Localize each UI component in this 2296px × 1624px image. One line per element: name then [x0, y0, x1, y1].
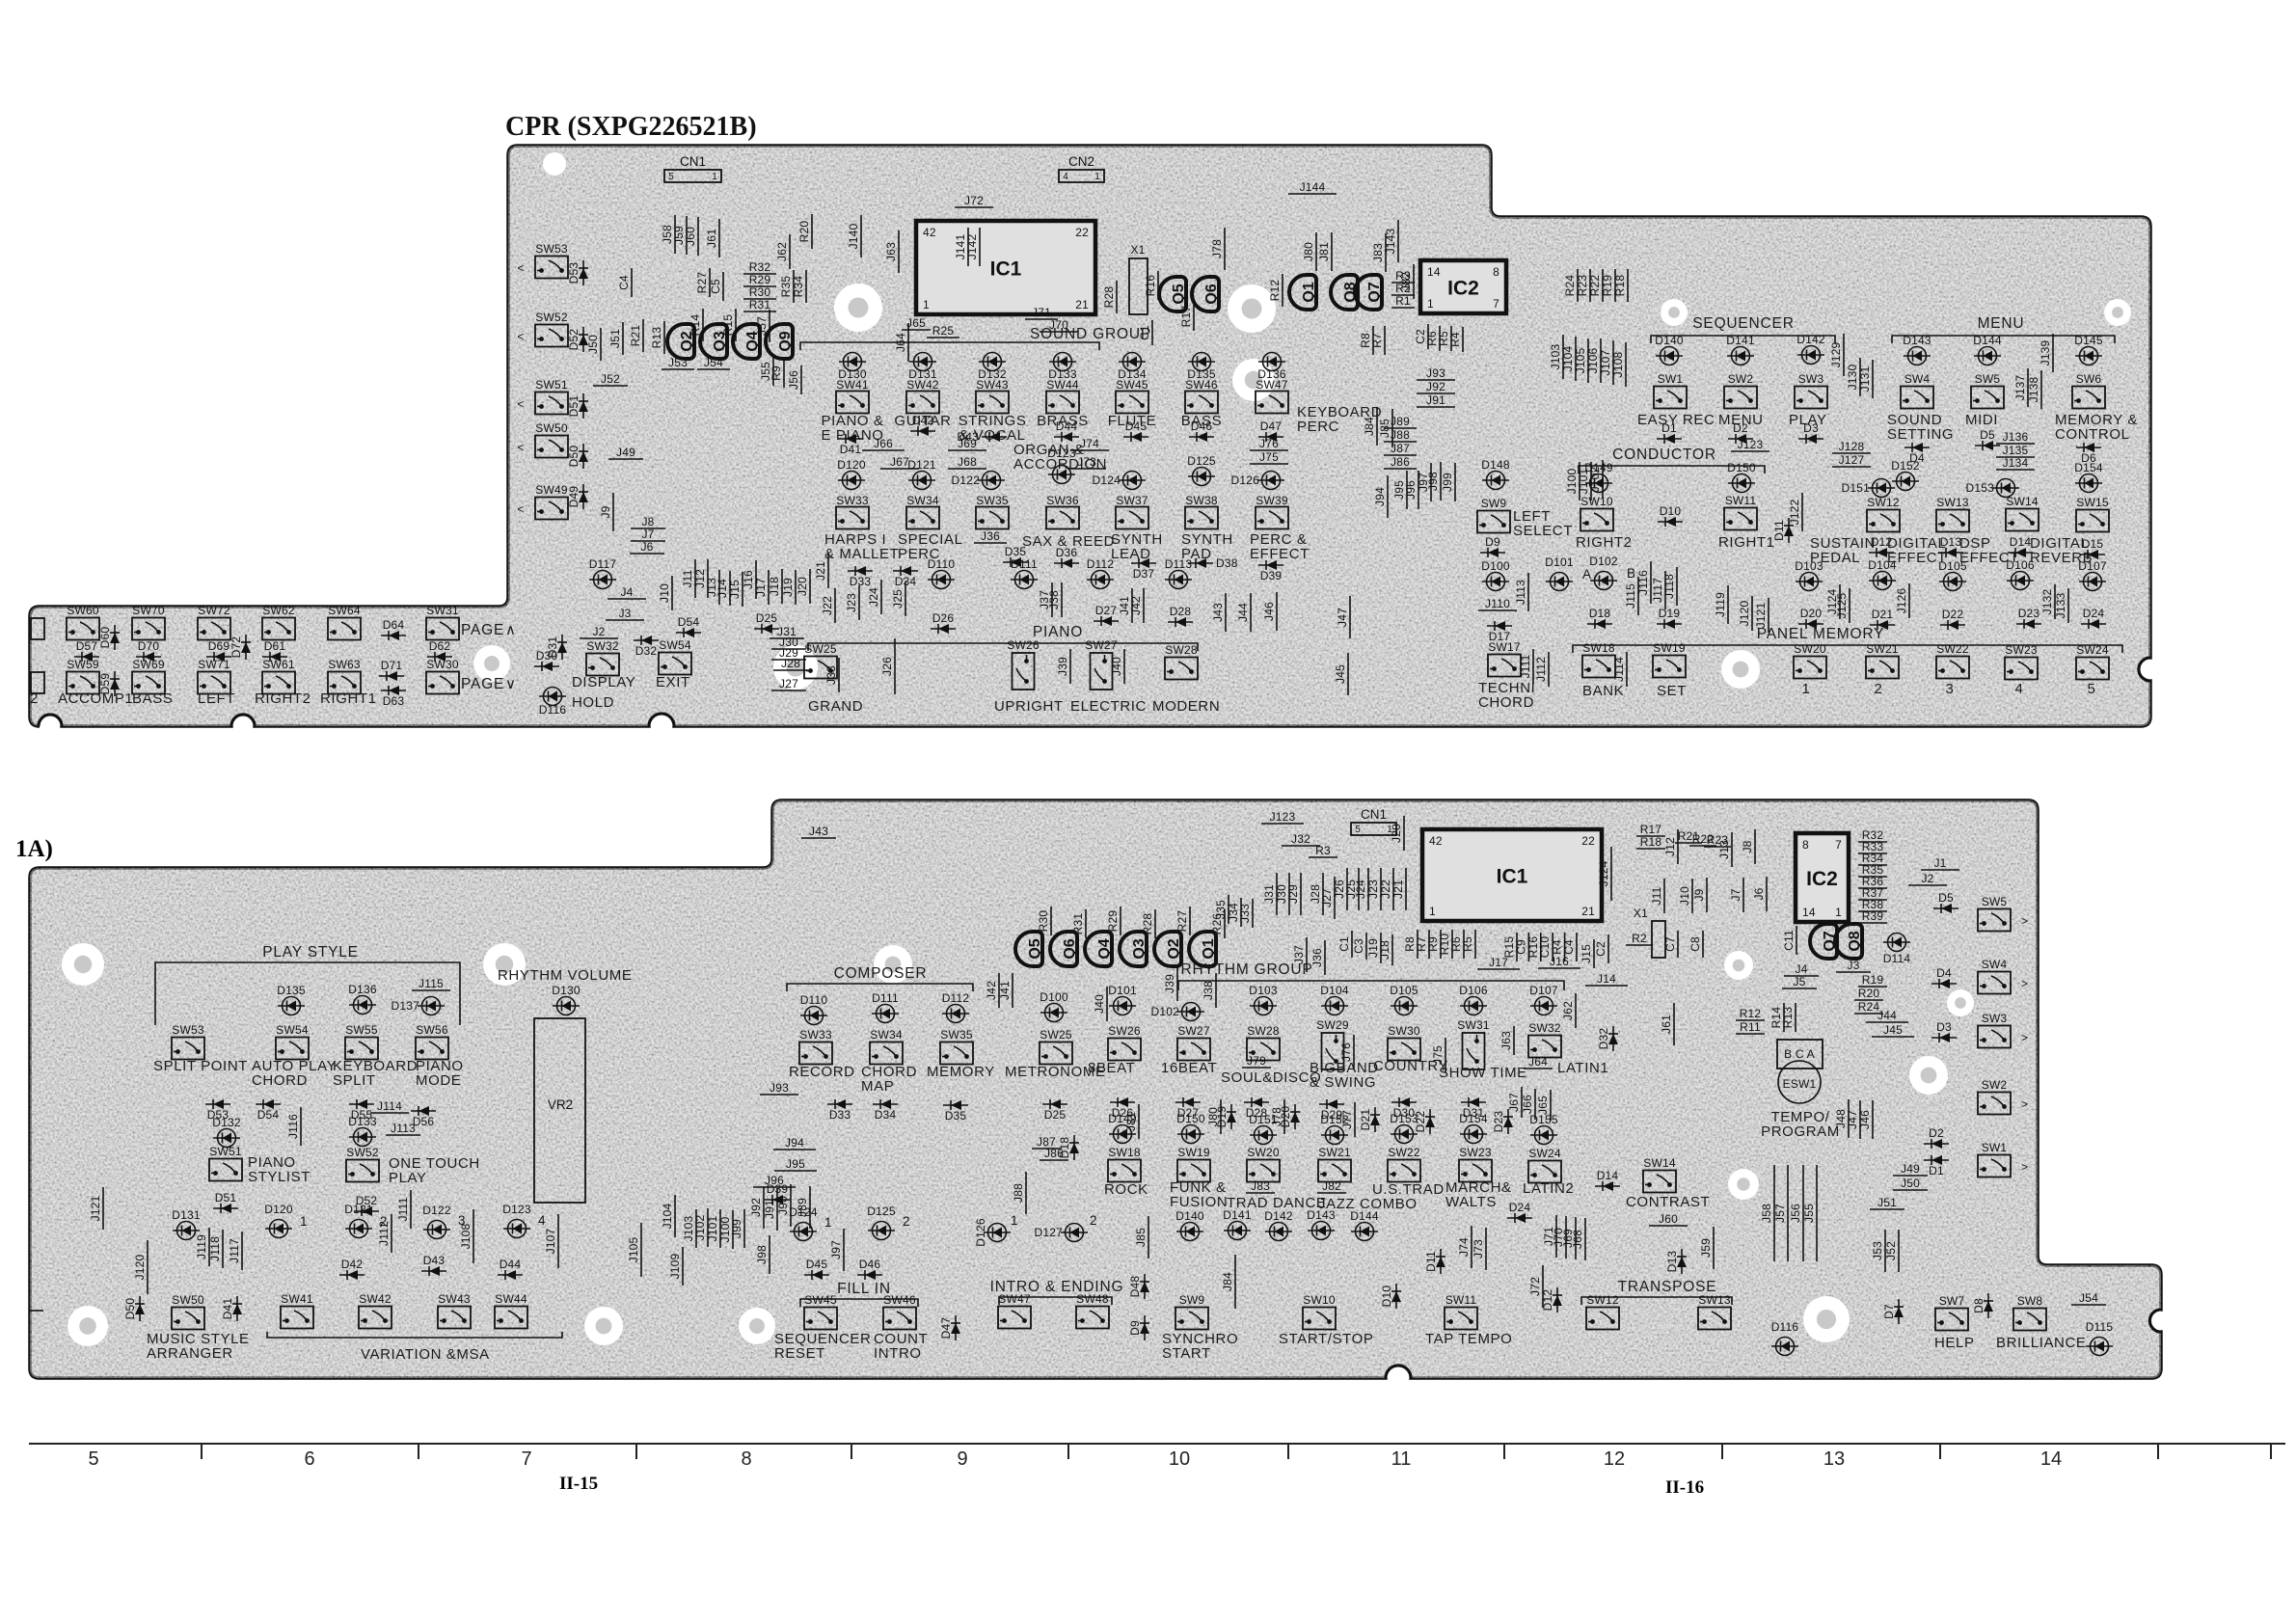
svg-text:J4: J4: [1795, 962, 1807, 976]
jumper J12: [707, 559, 709, 598]
jumper J26: [1346, 868, 1348, 910]
jumper J85: [1148, 1216, 1149, 1259]
svg-text:LEFT: LEFT: [198, 690, 235, 707]
jumper R21: [642, 319, 644, 352]
jumper C11: [1796, 926, 1797, 955]
diode D9: [1140, 1315, 1149, 1340]
svg-text:J68: J68: [1571, 1230, 1584, 1249]
jumper J38: [1215, 973, 1217, 1008]
svg-text:∨: ∨: [505, 676, 517, 692]
svg-text:J139: J139: [2039, 339, 2052, 365]
jumper J23: [1380, 868, 1382, 910]
switch SW5: [1978, 895, 2011, 932]
svg-text:SW39: SW39: [1256, 494, 1288, 507]
transistor Q9: [766, 324, 794, 359]
svg-text:CN2: CN2: [1068, 154, 1094, 169]
svg-text:SW9: SW9: [1481, 497, 1507, 510]
svg-text:SW50: SW50: [172, 1293, 204, 1307]
svg-text:D143: D143: [1307, 1208, 1336, 1222]
switch SW35: [976, 507, 1009, 529]
svg-text:J17: J17: [754, 578, 768, 597]
jumper R28: [1154, 909, 1156, 938]
switch SW45: [1116, 392, 1148, 414]
jumper J121: [102, 1187, 104, 1230]
svg-text:J45: J45: [1883, 1023, 1903, 1037]
group bracket TRANSPOSE: [1581, 1297, 1732, 1305]
jumper J132: [2054, 584, 2056, 619]
jumper J12: [1677, 829, 1679, 864]
transistor Q3: [1120, 932, 1148, 966]
jumper R4: [1564, 933, 1566, 961]
svg-text:D121: D121: [907, 458, 936, 472]
mounting hole: [739, 1308, 775, 1344]
diode D143: [1904, 347, 1931, 365]
diode D24: [1507, 1213, 1532, 1223]
svg-text:J83: J83: [1371, 243, 1385, 262]
svg-text:D101: D101: [1545, 555, 1574, 569]
svg-text:D33: D33: [829, 1108, 851, 1122]
svg-text:SW34: SW34: [906, 494, 939, 507]
jumper J70: [1565, 1216, 1567, 1259]
svg-text:SW12: SW12: [1586, 1293, 1619, 1307]
svg-text:Q2: Q2: [1166, 938, 1182, 959]
switch SW53: [172, 1023, 204, 1060]
svg-text:SW11: SW11: [1445, 1293, 1477, 1307]
jumper J99: [743, 1209, 745, 1248]
jumper J75: [1445, 1038, 1446, 1072]
diode D70: [136, 652, 161, 662]
transistor Q8: [1835, 924, 1863, 959]
svg-text:J106: J106: [1586, 347, 1600, 373]
svg-text:D103: D103: [1795, 559, 1823, 573]
svg-text:D71: D71: [381, 659, 403, 672]
svg-text:1: 1: [923, 298, 930, 311]
svg-text:D11: D11: [1424, 1251, 1438, 1272]
group bracket RHYTHM GROUP: [1178, 981, 1564, 990]
svg-text:SHOW TIME: SHOW TIME: [1439, 1065, 1527, 1081]
svg-text:R24: R24: [1563, 275, 1577, 297]
svg-text:D140: D140: [1655, 334, 1684, 347]
svg-text:INTRO: INTRO: [874, 1345, 922, 1362]
diode D2: [1728, 434, 1753, 444]
diode D154: [2075, 474, 2102, 493]
switch SW10: [1580, 495, 1613, 531]
svg-text:D41: D41: [221, 1298, 234, 1320]
jumper J100: [1579, 462, 1580, 501]
svg-text:J24: J24: [867, 587, 880, 607]
jumper R5: [1474, 930, 1476, 959]
diode D34: [893, 566, 918, 576]
svg-text:R18: R18: [1613, 275, 1627, 297]
svg-text:J81: J81: [1124, 1112, 1138, 1131]
svg-text:J53: J53: [1871, 1241, 1884, 1260]
jumper J138: [2040, 370, 2042, 409]
jumper R5: [1450, 326, 1452, 351]
svg-text:J107: J107: [1599, 349, 1612, 375]
svg-text:D150: D150: [1176, 1112, 1205, 1125]
svg-text:D48: D48: [1128, 1276, 1142, 1298]
diode D100: [1482, 573, 1509, 591]
diode D1: [1657, 434, 1682, 444]
svg-text:J144: J144: [1300, 180, 1326, 194]
svg-text:D125: D125: [1187, 454, 1216, 468]
svg-text:J19: J19: [781, 578, 795, 597]
svg-text:J21: J21: [1391, 880, 1405, 899]
diode D47: [1258, 432, 1283, 442]
svg-text:GRAND: GRAND: [808, 698, 863, 715]
jumper J13: [718, 570, 720, 605]
transistor Q4: [733, 324, 761, 359]
svg-text:J116: J116: [1636, 570, 1650, 595]
transistor Q1: [1289, 275, 1317, 310]
diode D143: [1308, 1222, 1335, 1240]
svg-text:PROGRAM: PROGRAM: [1761, 1123, 1840, 1140]
svg-text:R29: R29: [1106, 910, 1120, 933]
svg-text:D126: D126: [974, 1218, 987, 1247]
svg-text:J132: J132: [2040, 588, 2054, 614]
svg-text:D33: D33: [850, 575, 872, 588]
jumper J90: [790, 1184, 792, 1227]
svg-text:C4: C4: [1562, 939, 1576, 955]
jumper J33: [838, 658, 840, 692]
svg-text:D124: D124: [789, 1205, 818, 1219]
svg-text:R3: R3: [1315, 844, 1331, 857]
svg-text:MIDI: MIDI: [1965, 412, 1998, 428]
svg-text:J59: J59: [1699, 1238, 1713, 1258]
svg-text:R28: R28: [1102, 286, 1116, 309]
svg-text:2: 2: [903, 1214, 910, 1229]
svg-text:J61: J61: [705, 229, 718, 248]
jumper J37: [1051, 582, 1053, 617]
svg-text:C7: C7: [1663, 936, 1677, 952]
svg-text:J27: J27: [1320, 888, 1334, 907]
svg-text:J33: J33: [824, 665, 838, 685]
svg-text:RIGHT1: RIGHT1: [320, 690, 377, 707]
jumper J59: [1713, 1227, 1715, 1269]
svg-text:J21: J21: [814, 561, 827, 581]
svg-text:D18: D18: [1058, 1137, 1071, 1159]
svg-text:SW33: SW33: [799, 1028, 832, 1042]
svg-text:R16: R16: [1144, 275, 1157, 297]
diode D12: [1869, 548, 1894, 557]
svg-text:SW72: SW72: [198, 604, 230, 617]
jumper R35: [793, 270, 795, 303]
diode D41: [232, 1296, 242, 1321]
svg-text:J66: J66: [874, 437, 893, 450]
svg-text:J66: J66: [1521, 1095, 1534, 1114]
svg-text:J115: J115: [1624, 583, 1637, 609]
svg-text:J61: J61: [1660, 1015, 1673, 1034]
svg-text:21: 21: [1075, 298, 1089, 311]
svg-text:SOUL&DISCO: SOUL&DISCO: [1221, 1069, 1321, 1086]
svg-text:Q1: Q1: [1301, 282, 1317, 302]
svg-text:D140: D140: [1175, 1209, 1204, 1223]
svg-text:J32: J32: [1291, 832, 1310, 846]
switch SW9: [1175, 1293, 1208, 1330]
svg-text:J73: J73: [1077, 455, 1096, 469]
jumper J64: [907, 323, 909, 362]
svg-text:J88: J88: [1012, 1183, 1025, 1203]
svg-text:D113: D113: [1165, 557, 1193, 571]
jumper J42: [998, 973, 1000, 1008]
diode D50: [579, 444, 588, 469]
jumper J95: [1406, 471, 1408, 509]
switch SW44: [495, 1292, 527, 1329]
svg-text:J22: J22: [1379, 880, 1392, 899]
svg-text:<: <: [517, 441, 524, 454]
group bracket FILL IN: [800, 1299, 918, 1307]
svg-text:II-16: II-16: [1665, 1477, 1704, 1498]
switch SW34: [870, 1028, 903, 1065]
svg-text:SW48: SW48: [1076, 1292, 1109, 1306]
svg-text:START/STOP: START/STOP: [1279, 1331, 1374, 1347]
ruler: [29, 1443, 2285, 1445]
svg-text:D35: D35: [945, 1109, 967, 1123]
svg-text:R1: R1: [1395, 294, 1411, 308]
svg-text:J23: J23: [845, 593, 858, 612]
svg-text:J118: J118: [208, 1236, 222, 1261]
jumper J71: [1555, 1215, 1557, 1258]
svg-text:MAP: MAP: [861, 1078, 894, 1095]
svg-text:J94: J94: [1373, 487, 1387, 506]
jumper R10: [1451, 930, 1453, 959]
diode D154: [1460, 1125, 1487, 1144]
jumper J103: [695, 1209, 697, 1248]
svg-text:8: 8: [1493, 265, 1499, 279]
svg-text:D155: D155: [1529, 1113, 1558, 1126]
svg-text:D36: D36: [1056, 546, 1078, 559]
svg-text:J113: J113: [1514, 580, 1527, 605]
jumper J62: [789, 234, 791, 269]
svg-text:D50: D50: [567, 446, 581, 468]
jumper R12: [1282, 274, 1283, 307]
svg-text:D32: D32: [635, 644, 658, 658]
group bracket SEQUENCER: [1651, 336, 1835, 343]
svg-text:D42: D42: [341, 1258, 364, 1271]
svg-text:SW43: SW43: [976, 378, 1009, 392]
svg-text:SW11: SW11: [1725, 494, 1757, 507]
diode D4: [1904, 443, 1930, 452]
svg-text:D145: D145: [2074, 334, 2103, 347]
svg-text:J16: J16: [742, 570, 755, 589]
svg-text:C5: C5: [709, 279, 722, 294]
diode D106: [1460, 997, 1487, 1015]
jumper J25: [905, 582, 906, 616]
svg-text:SPLIT: SPLIT: [333, 1072, 376, 1089]
svg-text:MEMORY: MEMORY: [927, 1064, 995, 1080]
svg-text:R30: R30: [749, 285, 771, 299]
svg-text:Q8: Q8: [1847, 931, 1863, 951]
svg-text:SW1: SW1: [1658, 372, 1684, 386]
svg-text:VR2: VR2: [548, 1097, 573, 1112]
svg-text:R29: R29: [749, 273, 771, 286]
svg-text:J64: J64: [1528, 1055, 1548, 1069]
svg-text:SW31: SW31: [1457, 1018, 1490, 1032]
svg-text:D34: D34: [875, 1108, 897, 1122]
svg-text:SOUND GROUP: SOUND GROUP: [1030, 326, 1151, 342]
diode D56: [411, 1106, 436, 1116]
svg-text:SW38: SW38: [1185, 494, 1218, 507]
diode D13: [1938, 548, 1963, 557]
jumper R34: [805, 270, 807, 303]
svg-text:D54: D54: [257, 1108, 280, 1122]
diode D7: [1894, 1299, 1904, 1324]
switch SW39: [1256, 507, 1288, 529]
diode D106: [2007, 572, 2034, 590]
svg-text:J104: J104: [661, 1203, 674, 1229]
svg-text:J11: J11: [681, 569, 694, 587]
svg-text:22: 22: [1075, 226, 1089, 239]
svg-text:>: >: [2021, 1031, 2028, 1044]
svg-text:D111: D111: [872, 991, 899, 1005]
switch SW51: [535, 378, 568, 415]
svg-text:B C A: B C A: [1784, 1047, 1815, 1061]
switch SW7: [1935, 1294, 1968, 1331]
svg-text:SW20: SW20: [1247, 1146, 1280, 1159]
diode D149: [1585, 474, 1612, 493]
diode D102: [1177, 1003, 1204, 1021]
svg-text:J80: J80: [1302, 242, 1315, 261]
jumper J97: [843, 1229, 845, 1271]
svg-text:D62: D62: [429, 639, 451, 653]
svg-text:10: 10: [1169, 1448, 1190, 1470]
svg-text:SW63: SW63: [328, 658, 361, 671]
svg-text:D51: D51: [567, 395, 581, 418]
diode D105: [1391, 997, 1418, 1015]
svg-text:D56: D56: [413, 1115, 435, 1128]
svg-text:J124: J124: [1597, 860, 1610, 886]
switch SW25: [804, 642, 837, 679]
bottom PCB board (1A) outline: [30, 800, 2161, 1378]
svg-text:3: 3: [1946, 681, 1955, 697]
switch SW13: [1936, 496, 1969, 532]
svg-text:D39: D39: [1260, 569, 1283, 582]
jumper R14: [1783, 1003, 1785, 1032]
switch SW28: [1247, 1024, 1280, 1061]
jumper J124: [1839, 584, 1841, 619]
jumper J11: [694, 559, 696, 598]
mounting hole: [68, 1306, 108, 1346]
svg-text:J29: J29: [1286, 884, 1300, 904]
mounting hole: [834, 284, 882, 332]
svg-text:D23: D23: [1492, 1111, 1505, 1133]
svg-text:J18: J18: [1378, 940, 1391, 960]
svg-text:J47: J47: [1846, 1110, 1859, 1129]
svg-text:D11: D11: [1772, 520, 1786, 541]
svg-text:J22: J22: [821, 596, 834, 615]
diode D49: [579, 484, 588, 509]
diode D51: [579, 393, 588, 419]
diode D25: [1042, 1099, 1067, 1109]
switch SW25: [1040, 1028, 1072, 1065]
transistor Q7: [1355, 275, 1383, 310]
diode D104: [1869, 572, 1896, 590]
svg-text:SW27: SW27: [1177, 1024, 1210, 1038]
jumper J62: [1575, 993, 1577, 1028]
switch SW8: [2013, 1294, 2046, 1331]
jumper J116: [1650, 561, 1652, 604]
svg-text:WALTS: WALTS: [1445, 1194, 1497, 1210]
svg-text:J81: J81: [1317, 242, 1331, 261]
switch SW14: [2006, 495, 2039, 531]
svg-text:SW64: SW64: [328, 604, 361, 617]
jumper J142: [979, 228, 981, 266]
jumper J108: [473, 1209, 474, 1263]
svg-text:J10: J10: [1678, 886, 1691, 906]
svg-text:D124: D124: [1093, 474, 1121, 487]
transistor Q2: [667, 324, 695, 359]
jumper J55: [1816, 1165, 1818, 1261]
jumper J56: [800, 365, 802, 394]
svg-text:SW37: SW37: [1116, 494, 1148, 507]
svg-text:R17: R17: [1179, 306, 1193, 328]
svg-text:SW56: SW56: [416, 1023, 448, 1037]
jumper J120: [1751, 596, 1753, 631]
jumper J69: [1575, 1217, 1577, 1259]
transistor Q3: [700, 324, 728, 359]
svg-text:SW30: SW30: [1388, 1024, 1420, 1038]
svg-text:J14: J14: [1597, 972, 1616, 986]
svg-text:J63: J63: [884, 242, 898, 261]
diode D43: [421, 1266, 446, 1276]
svg-text:D24: D24: [2083, 607, 2105, 620]
connector CN1: [1351, 823, 1396, 835]
svg-text:D42: D42: [912, 414, 934, 427]
svg-text:J85: J85: [1378, 419, 1391, 438]
switch SW21: [1318, 1146, 1351, 1182]
diode D44: [1054, 432, 1079, 442]
jumper J24: [1367, 868, 1369, 910]
svg-text:R15: R15: [721, 314, 735, 337]
svg-text:D54: D54: [678, 615, 700, 629]
svg-text:J137: J137: [2013, 374, 2027, 400]
svg-text:D50: D50: [123, 1298, 137, 1320]
transistor Q4: [1085, 932, 1113, 966]
svg-text:CPR (SXPG226521B): CPR (SXPG226521B): [505, 112, 757, 142]
diode D17: [1487, 621, 1512, 631]
jumper J39: [1069, 649, 1071, 684]
jumper J34: [1240, 898, 1242, 927]
svg-text:RECORD: RECORD: [789, 1064, 855, 1080]
diode D26: [931, 624, 956, 634]
svg-text:J133: J133: [2054, 592, 2067, 618]
svg-text:J13: J13: [1717, 840, 1731, 859]
svg-text:SEQUENCER: SEQUENCER: [1692, 315, 1794, 332]
svg-text:D69: D69: [208, 639, 230, 653]
diode D9: [1480, 548, 1505, 557]
mounting hole: [1721, 650, 1760, 689]
svg-text:U.S.TRAD: U.S.TRAD: [1372, 1181, 1445, 1198]
svg-text:SW2: SW2: [1728, 372, 1754, 386]
svg-text:J136: J136: [2003, 430, 2029, 444]
svg-text:J140: J140: [847, 223, 860, 249]
svg-text:PERC: PERC: [1297, 419, 1339, 435]
svg-text:J39: J39: [1163, 974, 1176, 993]
svg-text:J40: J40: [1110, 657, 1123, 676]
svg-text:J38: J38: [1202, 981, 1215, 1000]
jumper J107: [1612, 340, 1614, 385]
svg-text:IC2: IC2: [1806, 868, 1838, 890]
svg-text:J108: J108: [459, 1223, 473, 1249]
svg-text:8BEAT: 8BEAT: [1088, 1060, 1135, 1076]
jumper J140: [860, 215, 862, 257]
svg-text:D103: D103: [1249, 984, 1278, 997]
svg-text:HELP: HELP: [1934, 1335, 1975, 1351]
diode D30: [1391, 1097, 1417, 1107]
jumper J111: [410, 1190, 412, 1229]
transistor Q5: [1159, 277, 1187, 311]
group bracket PLAY STYLE: [155, 962, 460, 1025]
